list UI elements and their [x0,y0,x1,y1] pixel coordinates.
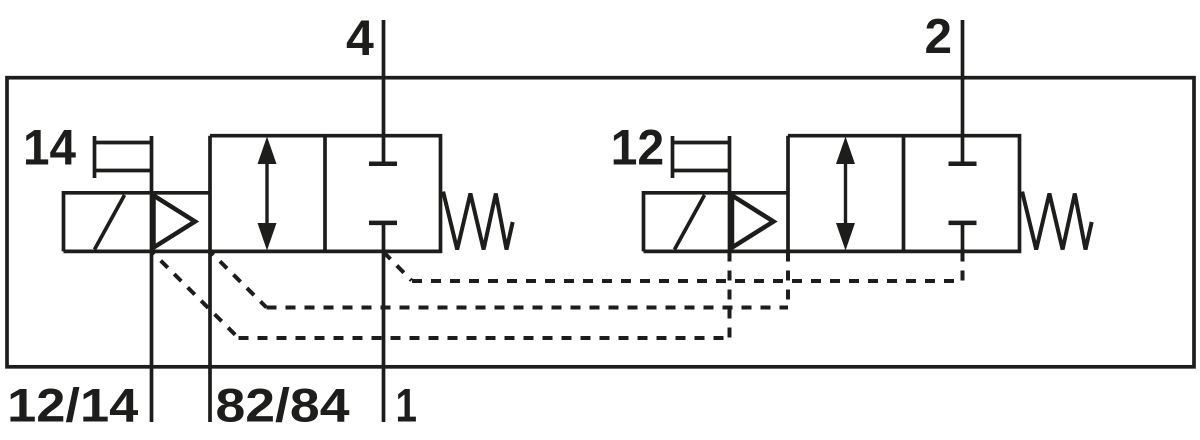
svg-text:12/14: 12/14 [7,378,138,431]
wire pilot 14 vertical [150,136,154,422]
svg-text:4: 4 [346,10,374,66]
valve body right valve [644,136,1020,252]
pilot line dashed 12/14 to right solenoid [152,252,730,339]
valve body left valve [64,136,441,252]
pilot line dashed port 1 to right valve bottom seat [384,252,963,282]
pilot triangle left valve [154,196,196,248]
svg-text:82/84: 82/84 [216,378,350,431]
port seat bottom right valve [949,221,977,226]
arrow double-headed left valve [265,160,268,227]
port seat top left valve [369,162,397,167]
svg-text:14: 14 [23,119,76,176]
enclosure border [7,78,1194,367]
port seat top right valve [949,162,977,167]
svg-text:1: 1 [396,378,418,431]
wire port 4 line [382,20,386,162]
wire port 2 line [961,20,965,162]
solenoid coil left valve [64,193,211,252]
pilot triangle right valve [732,196,774,248]
svg-text:12: 12 [611,119,665,176]
pilot line dashed 82/84 to right valve body [210,252,788,308]
spring left valve [441,194,513,250]
pilot port 12 box [673,136,730,178]
wire port 1 line [382,223,386,422]
wire stub below right valve port [961,223,965,261]
spring right valve [1020,194,1092,250]
arrow double-headed right valve [844,160,847,227]
svg-text:2: 2 [924,9,952,64]
solenoid coil right valve [644,193,789,252]
pilot port 14 box [95,136,152,178]
port seat bottom left valve [369,221,397,226]
wire pilot 12 vertical [728,136,732,251]
